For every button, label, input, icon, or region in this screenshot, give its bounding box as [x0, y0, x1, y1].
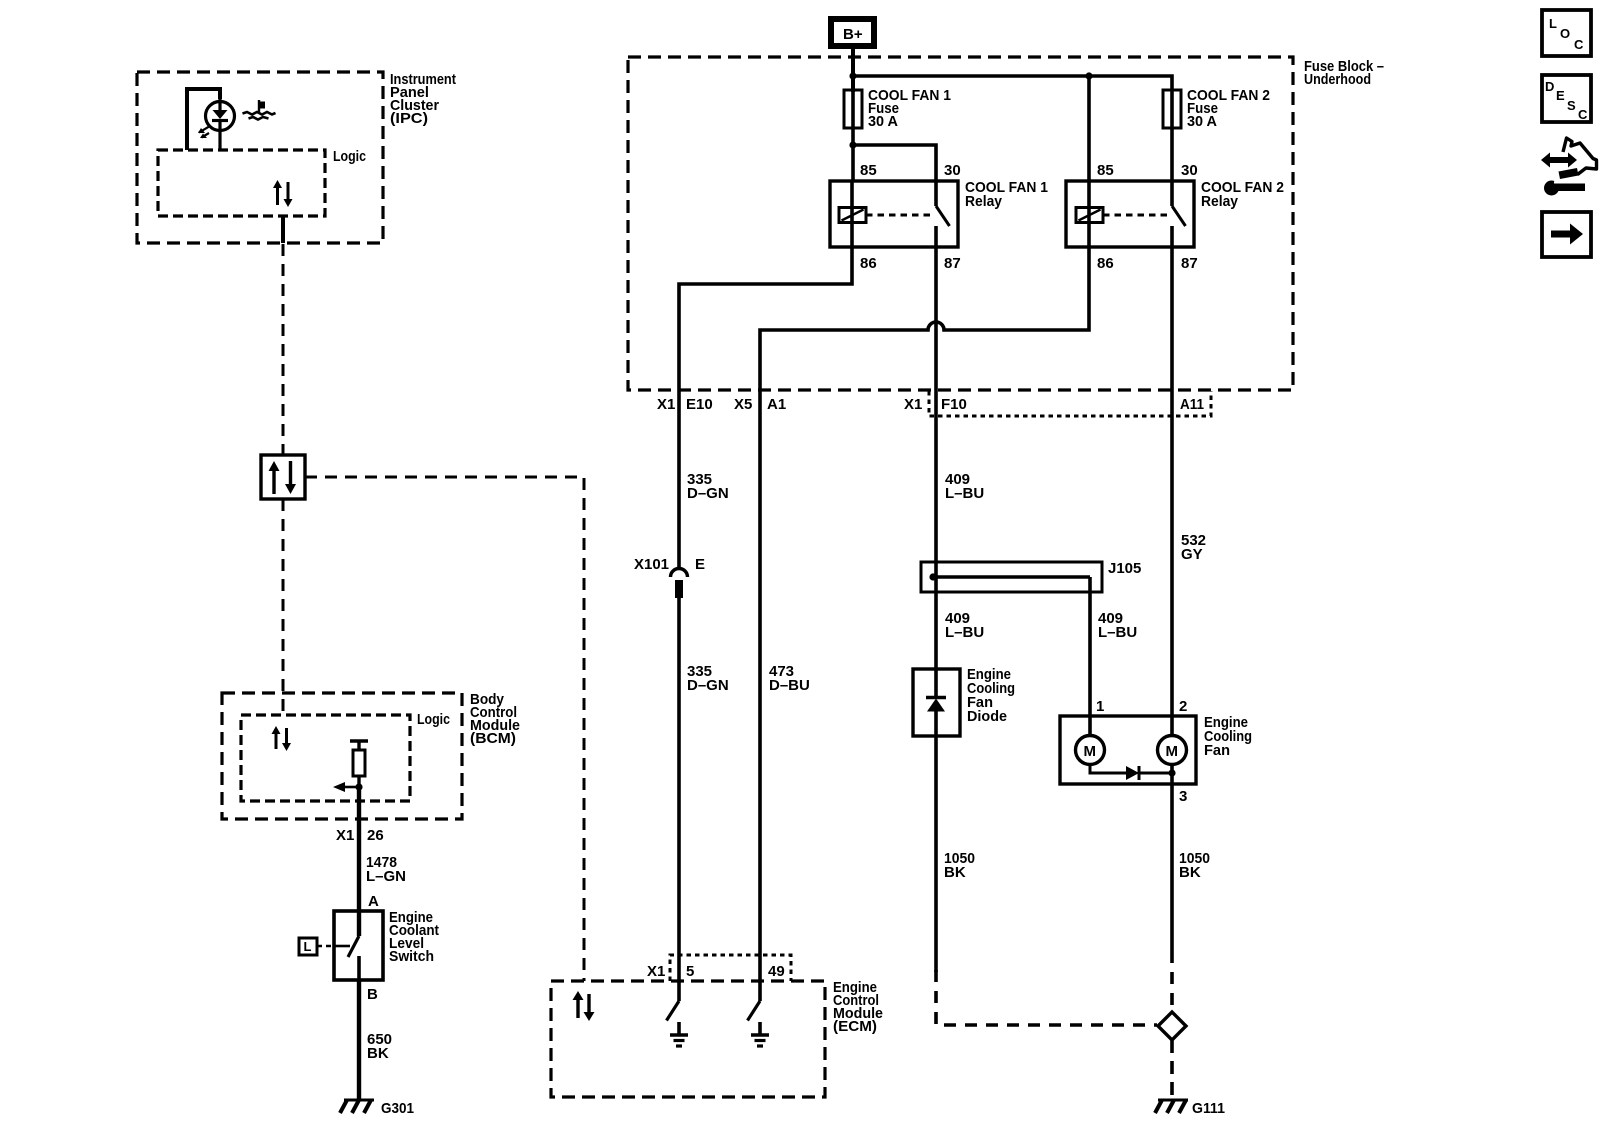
dashed ground wire from fan [1170, 951, 1174, 1011]
svg-text:30 A: 30 A [868, 113, 898, 130]
svg-text:X1: X1 [657, 396, 675, 413]
level sensor L box [299, 938, 334, 955]
ECM connector dotted box [670, 955, 791, 981]
svg-text:L–BU: L–BU [945, 624, 984, 641]
svg-text:26: 26 [367, 827, 384, 844]
ECM box [551, 981, 825, 1097]
svg-text:49: 49 [768, 963, 785, 980]
LOC icon box [1542, 10, 1591, 56]
relay 2 coil [1087, 181, 1091, 247]
serial data comm box [261, 455, 305, 499]
svg-text:X1: X1 [336, 827, 354, 844]
ECM driver 1 (pin 5) [667, 1001, 689, 1046]
svg-text:3: 3 [1179, 788, 1187, 805]
relay COOL FAN 2 [1066, 162, 1284, 272]
svg-text:1: 1 [1096, 698, 1104, 715]
svg-text:30: 30 [944, 162, 961, 179]
wire IPC logic output [281, 216, 285, 243]
svg-text:BK: BK [1179, 864, 1201, 881]
wire relay2 86 to ECM pin49 (hops over) [760, 247, 1089, 1001]
svg-text:E: E [695, 556, 705, 573]
wire B+ down [851, 46, 855, 92]
svg-text:D–GN: D–GN [687, 677, 729, 694]
svg-text:D–GN: D–GN [687, 485, 729, 502]
wire J105 to fan pin1 [1088, 577, 1092, 716]
svg-text:Relay: Relay [1201, 193, 1239, 210]
wire relay2 87 down to fan [1170, 247, 1174, 716]
BCM pull-up sensor element [350, 741, 368, 800]
svg-text:(ECM): (ECM) [833, 1018, 877, 1035]
svg-text:30: 30 [1181, 162, 1198, 179]
svg-text:Switch: Switch [389, 948, 434, 965]
switch box [334, 911, 383, 980]
svg-text:L–GN: L–GN [366, 868, 406, 885]
svg-text:87: 87 [944, 255, 961, 272]
svg-text:G111: G111 [1192, 1100, 1225, 1117]
ECM driver 2 (pin 49) [748, 1001, 770, 1046]
svg-text:C: C [1578, 107, 1588, 122]
ground G301 [340, 1100, 414, 1117]
svg-text:85: 85 [1097, 162, 1114, 179]
fan internal diode [1090, 764, 1126, 773]
junction [849, 141, 856, 148]
dashed serial data wire IPC to comm node [282, 244, 285, 455]
svg-text:Logic: Logic [333, 148, 366, 165]
svg-text:S: S [1567, 98, 1576, 113]
svg-text:M: M [1084, 743, 1097, 760]
svg-text:2: 2 [1179, 698, 1187, 715]
wire relay1 86 to ECM pin5 [679, 247, 852, 568]
svg-text:(IPC): (IPC) [390, 110, 428, 127]
svg-text:E10: E10 [686, 396, 713, 413]
wire fuse1 to relay1 pin30 branch [853, 145, 936, 181]
svg-text:A1: A1 [767, 396, 786, 413]
svg-text:X101: X101 [634, 556, 669, 573]
B+ rail wire [853, 76, 1172, 92]
svg-text:J105: J105 [1108, 560, 1141, 577]
wire fan pin3 down [1170, 784, 1174, 951]
svg-text:85: 85 [860, 162, 877, 179]
wire BCM to switch [357, 787, 361, 936]
svg-text:Underhood: Underhood [1304, 71, 1371, 88]
fuse COOL FAN 2 30A [1163, 87, 1270, 130]
junction [1085, 72, 1092, 79]
fan motor 1 [1088, 716, 1092, 736]
svg-text:L: L [304, 939, 312, 954]
wire X101 to ECM pin 5 [677, 598, 681, 1001]
wire diode down [934, 736, 938, 972]
svg-text:D: D [1545, 79, 1554, 94]
svg-text:D–BU: D–BU [769, 677, 810, 694]
fuse COOL FAN 1 30A [844, 87, 951, 130]
B+ terminal [831, 19, 874, 46]
junction [849, 72, 856, 79]
wire through fuse 2 [1170, 92, 1174, 181]
svg-text:X1: X1 [904, 396, 922, 413]
relay 2 contact [1170, 181, 1174, 206]
wire J105 to diode [934, 577, 938, 669]
wire relay1 87 down [934, 247, 938, 577]
svg-text:L: L [1549, 16, 1557, 31]
BCM logic data arrows [272, 726, 292, 751]
svg-text:Relay: Relay [965, 193, 1003, 210]
ground G111 [1155, 1100, 1225, 1117]
Engine Cooling Fan Diode [913, 666, 1015, 736]
indicator LED lamp [198, 99, 235, 150]
svg-text:L–BU: L–BU [1098, 624, 1137, 641]
svg-text:86: 86 [1097, 255, 1114, 272]
wire through fuse 1 [851, 92, 855, 181]
BCM sense arrow [333, 782, 363, 792]
dashed serial data wire comm box to BCM [282, 499, 285, 715]
dashed ground wire from diode [936, 970, 1157, 1025]
svg-text:O: O [1560, 26, 1570, 41]
svg-text:Diode: Diode [967, 708, 1007, 725]
relay 1 coil [850, 181, 854, 247]
svg-text:F10: F10 [941, 396, 967, 413]
IPC box [137, 72, 383, 243]
svg-text:30 A: 30 A [1187, 113, 1217, 130]
svg-text:Fan: Fan [1204, 742, 1230, 759]
BCM box [222, 693, 462, 819]
BCM logic box [241, 715, 410, 801]
svg-text:E: E [1556, 88, 1565, 103]
svg-text:G301: G301 [381, 1100, 414, 1117]
svg-text:M: M [1166, 743, 1179, 760]
fuse block connector C2 dotted box [929, 391, 1211, 416]
troubleshooting tools icon [1541, 138, 1597, 196]
svg-text:X5: X5 [734, 396, 752, 413]
dashed serial data wire comm box to ECM [305, 477, 584, 981]
fan motor 2 [1170, 716, 1174, 736]
svg-text:L–BU: L–BU [945, 485, 984, 502]
svg-text:(BCM): (BCM) [470, 730, 516, 747]
DESC icon box [1542, 75, 1591, 122]
svg-text:A11: A11 [1180, 396, 1204, 413]
svg-text:86: 86 [860, 255, 877, 272]
switch blade [348, 936, 359, 957]
IPC logic data arrows [273, 180, 293, 207]
wire switch to G301 [357, 980, 361, 1100]
svg-text:5: 5 [686, 963, 694, 980]
svg-text:B+: B+ [843, 26, 863, 43]
svg-text:B: B [367, 986, 378, 1003]
inline connector X101 pin E [634, 556, 705, 598]
wire to indicator [187, 89, 220, 150]
wire rail to relay 2 coil [1087, 76, 1091, 181]
svg-text:BK: BK [367, 1045, 389, 1062]
low coolant telltale glyph [243, 100, 276, 120]
relay 1 contact [934, 181, 938, 206]
svg-text:A: A [368, 893, 379, 910]
svg-text:BK: BK [944, 864, 966, 881]
svg-text:GY: GY [1181, 546, 1203, 563]
svg-text:Logic: Logic [417, 711, 450, 728]
splice pack J105 [921, 560, 1141, 592]
relay COOL FAN 1 [830, 162, 1048, 272]
ECM data arrows [573, 991, 595, 1021]
svg-text:X1: X1 [647, 963, 665, 980]
fuse block box [628, 57, 1293, 390]
forward arrow icon box [1542, 212, 1591, 257]
svg-text:C: C [1574, 37, 1584, 52]
svg-text:87: 87 [1181, 255, 1198, 272]
IPC logic box [158, 150, 325, 216]
dashed wire diamond to G111 [1170, 1040, 1174, 1099]
splice diamond [1158, 1012, 1186, 1040]
